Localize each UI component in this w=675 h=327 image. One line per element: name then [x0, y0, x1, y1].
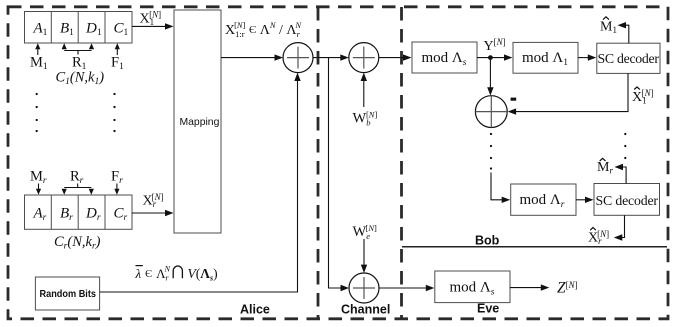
- wire Xr-hat output from SC decoder r: [622, 215, 625, 237]
- arrowhead M1 up: [35, 43, 40, 49]
- svg-text:V(Λs): V(Λs): [188, 266, 218, 283]
- svg-text:mod Λs: mod Λs: [422, 50, 467, 68]
- arrowhead random bits up into U1: [294, 73, 300, 81]
- svg-text:mod Λ1: mod Λ1: [522, 50, 568, 68]
- wire adder U2 to mod Lambda_s: [379, 57, 404, 59]
- svg-text:Random Bits: Random Bits: [40, 289, 97, 300]
- wire Y junction down into subtractor: [489, 58, 491, 89]
- svg-text:mod Λs: mod Λs: [450, 279, 495, 297]
- wire Mapping to adder U1: [221, 57, 275, 59]
- hat of X1: [634, 87, 640, 90]
- hat of Xr: [590, 228, 596, 231]
- arrowhead into mod Lambda_s Bob: [403, 54, 412, 60]
- wire We into adder U3: [363, 239, 365, 266]
- solid Bob/Eve separator line: [402, 246, 667, 248]
- wire M1 up arrow shaft: [37, 49, 39, 55]
- arrowhead into SC decoder 1: [588, 54, 597, 60]
- arrowhead into mod Lambda_s Eve: [426, 285, 435, 291]
- arrowhead down into subtractor: [487, 87, 493, 95]
- wire down-dots to mod Lambda_r: [491, 173, 503, 200]
- dots column below C1: [113, 93, 115, 132]
- wire Mr down arrow shaft: [38, 184, 40, 190]
- svg-text:mod Λr: mod Λr: [520, 192, 565, 210]
- arrowhead Mr down: [36, 189, 41, 195]
- arrowhead Z output: [541, 284, 550, 290]
- svg-text:Eve: Eve: [477, 302, 499, 316]
- label M1 R1 F1: [30, 55, 124, 73]
- arrowhead into mod Lambda_1: [504, 54, 513, 60]
- SC decoder box 1: [597, 43, 660, 73]
- encoder box 1 (cells A1 B1 D1 C1): [25, 12, 133, 44]
- wire mod Lambda_s Eve to Z: [510, 287, 542, 289]
- adder U2 channel Wb circle-plus: [349, 43, 379, 73]
- wire mod Lambda_s to mod Lambda_1: [477, 57, 505, 59]
- svg-text:SC decoder: SC decoder: [598, 51, 660, 66]
- intersection symbol: [173, 266, 182, 278]
- svg-text:Alice: Alice: [240, 303, 270, 317]
- label Mr Rr Fr: [30, 169, 123, 187]
- wire adder U1 to adder U2: [313, 57, 341, 59]
- arrowhead Rr down right: [89, 189, 94, 195]
- subtractor U4 Bob circle-plus: [475, 96, 507, 128]
- arrowhead Wb up into U2: [361, 73, 367, 81]
- mod Lambda_s box (Eve): [435, 271, 510, 303]
- label Ar Br Dr Cr: [33, 206, 128, 224]
- mod Lambda_s box (Bob): [412, 42, 477, 73]
- arrowhead Fr down: [114, 189, 119, 195]
- adder U1 Alice circle-plus: [283, 43, 313, 73]
- overbar of lambda: [136, 265, 143, 267]
- wire mod Lambda_1 to SC decoder 1: [578, 57, 589, 59]
- Random Bits box: [35, 277, 99, 310]
- arrowhead Xr-hat: [614, 234, 623, 240]
- arrowhead R1 up left: [62, 43, 67, 49]
- arrowhead R1 up right: [89, 43, 94, 49]
- arrowhead Xr into Mapping: [165, 210, 174, 216]
- dots column below subtractor: [490, 133, 492, 170]
- wire R1 split bracket: [77, 51, 79, 55]
- svg-text:SC decoder: SC decoder: [596, 193, 659, 208]
- dashed separator Alice/Channel: [317, 7, 320, 318]
- arrowhead F1 up: [115, 43, 120, 49]
- wire X1 encoder1 to Mapping: [132, 25, 166, 27]
- arrowhead feedback into subtractor: [508, 108, 516, 114]
- arrowhead Rr down left: [62, 189, 67, 195]
- wire M1-hat output from SC decoder 1: [626, 25, 629, 43]
- arrowhead Mr-hat: [615, 164, 624, 170]
- wire Eve adder to mod Lambda_s Eve: [379, 287, 427, 289]
- arrowhead into adder U1: [275, 54, 284, 60]
- arrowhead into adder U2: [340, 54, 349, 60]
- svg-text:Mapping: Mapping: [180, 117, 220, 128]
- wire X1-hat feedback to subtractor: [515, 73, 628, 111]
- junction node Y dot: [488, 55, 493, 60]
- SC decoder box r: [594, 184, 660, 216]
- wire Mr-hat output from SC decoder r: [623, 167, 627, 184]
- arrowhead M1-hat: [618, 22, 627, 28]
- mod Lambda_1 box: [513, 42, 578, 73]
- wire F1 up arrow shaft: [116, 49, 118, 55]
- dots column between SC decoders: [624, 133, 626, 159]
- arrowhead We down into U3: [361, 265, 367, 273]
- wire Fr down arrow shaft: [116, 184, 118, 190]
- label A1 B1 D1 C1: [33, 21, 129, 39]
- arrowhead X1 into Mapping: [165, 23, 174, 29]
- wire Rr split bracket: [77, 184, 79, 188]
- Mapping box: [174, 10, 221, 233]
- minus sign at subtractor: [511, 98, 517, 101]
- wire Xr encoder-r to Mapping: [132, 212, 166, 214]
- svg-text:Bob: Bob: [475, 234, 500, 248]
- hat of Mr: [600, 158, 606, 161]
- mod Lambda_r box: [511, 184, 576, 215]
- encoder box r (cells Ar Br Dr Cr): [25, 195, 133, 229]
- adder U3 channel We circle-plus: [349, 273, 379, 303]
- arrowhead into SC decoder r: [585, 197, 594, 203]
- dashed separator Channel/Bob-Eve: [400, 7, 403, 318]
- wire Random Bits to adder U1: [100, 81, 298, 293]
- svg-text:Channel: Channel: [341, 303, 390, 317]
- wire Wb into adder U2: [363, 81, 365, 108]
- hat of M1: [603, 17, 609, 20]
- arrowhead into Eve adder U3: [341, 285, 350, 291]
- dots column below A1: [36, 93, 38, 132]
- wire mod Lambda_r to SC decoder r: [576, 199, 586, 201]
- wire branch down to Eve adder: [329, 58, 342, 288]
- svg-text:X1:r[N]ЄΛN / ΛrN: X1:r[N]ЄΛN / ΛrN: [225, 20, 302, 39]
- arrowhead into mod Lambda_r: [502, 197, 511, 203]
